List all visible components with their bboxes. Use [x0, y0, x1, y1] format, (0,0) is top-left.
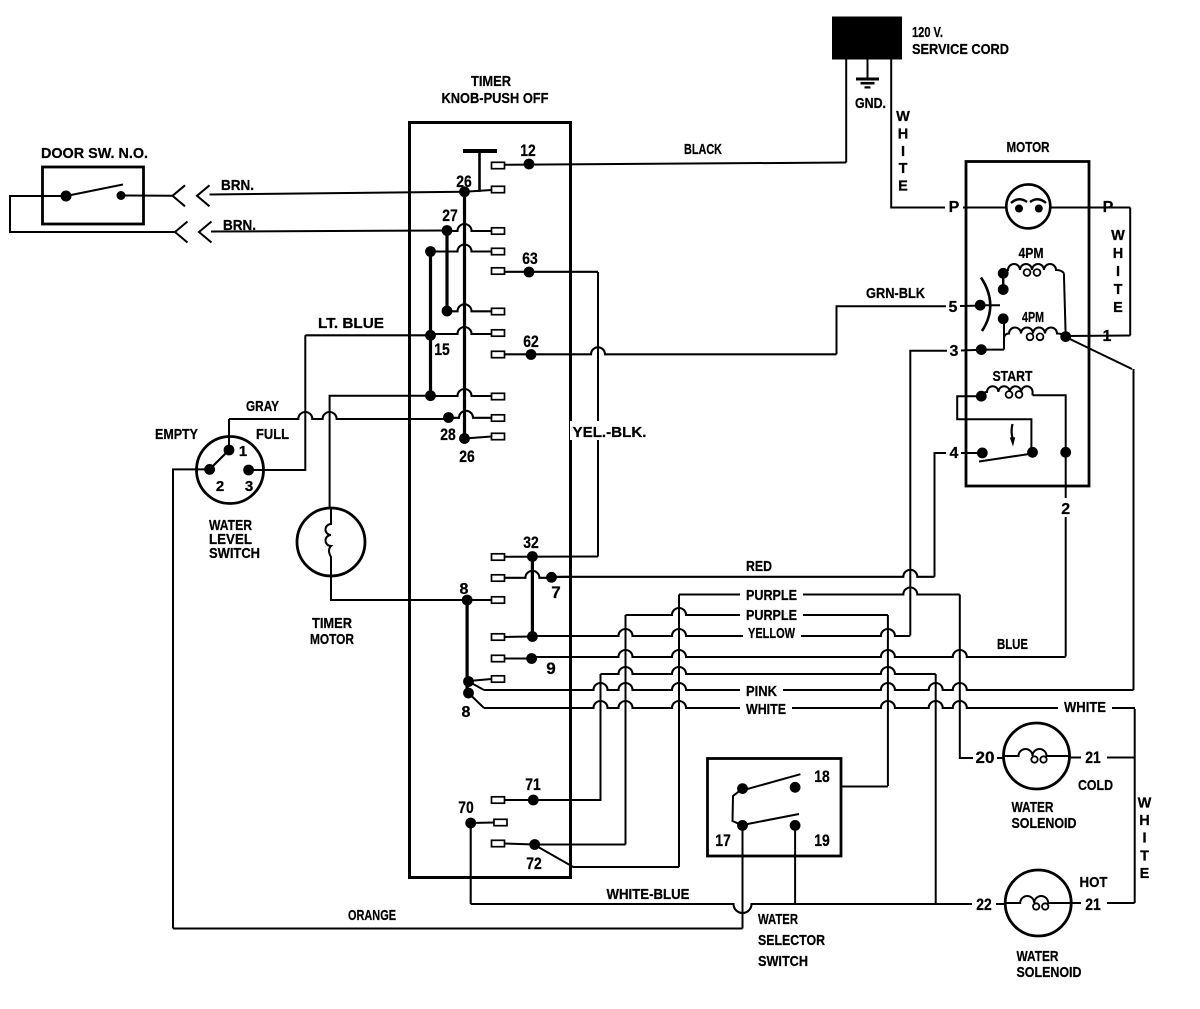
- wire PINK row: [484, 683, 1134, 690]
- label 4PM lower: [1022, 309, 1044, 326]
- svg-text:32: 32: [523, 533, 539, 552]
- timer terminal 12: [492, 162, 505, 168]
- svg-text:SOLENOID: SOLENOID: [1012, 815, 1077, 832]
- label PINK: [746, 683, 777, 700]
- svg-text:P: P: [949, 199, 960, 216]
- label 1: [1103, 328, 1112, 345]
- svg-text:3: 3: [950, 343, 959, 360]
- timer terminal 72: [492, 840, 505, 846]
- wls blade: [210, 450, 229, 469]
- timer terminal b311: [492, 308, 505, 314]
- svg-text:BLACK: BLACK: [684, 141, 722, 158]
- timer terminal c251: [492, 248, 505, 254]
- protector strip: [1011, 199, 1046, 203]
- label wls 2: [216, 478, 224, 495]
- wire ORANGE: [173, 928, 743, 930]
- label 19: [814, 831, 830, 850]
- node coil junction: [1060, 331, 1071, 342]
- timer terminal purple: [492, 634, 505, 640]
- coil2 left lead: [1003, 319, 1005, 350]
- svg-text:8: 8: [460, 581, 469, 598]
- svg-text:PURPLE: PURPLE: [746, 607, 797, 624]
- timer terminal ltblue: [492, 330, 505, 336]
- wire 311 to terminal: [447, 304, 492, 311]
- svg-text:2: 2: [1061, 501, 1070, 518]
- svg-text:FULL: FULL: [256, 426, 289, 443]
- wire timer motor riser: [330, 396, 431, 508]
- node 4b: [1027, 447, 1038, 458]
- svg-text:72: 72: [526, 854, 542, 873]
- svg-text:26: 26: [459, 447, 475, 466]
- wire 27 to terminal: [447, 224, 492, 231]
- wire hot 21: [1071, 902, 1135, 904]
- timer bus line C: [429, 252, 432, 396]
- timer bus line A: [463, 192, 466, 439]
- timer terminal 8: [492, 597, 505, 603]
- wire plug gnd pin: [867, 58, 869, 79]
- wire P right to corner: [1089, 207, 1130, 209]
- coil1 contact lower: [998, 284, 1009, 295]
- svg-text:E: E: [1140, 866, 1150, 882]
- label P right: [1100, 198, 1116, 216]
- label service cord: [912, 41, 1009, 58]
- cold water solenoid: [1004, 723, 1070, 789]
- connector chevron lower left: [175, 222, 188, 243]
- svg-text:TIMER: TIMER: [312, 615, 352, 632]
- wire PURPLE row2: [626, 608, 888, 615]
- wls contact 2: [204, 464, 215, 475]
- label HOT: [1080, 874, 1108, 891]
- svg-text:START: START: [993, 368, 1033, 385]
- wire 26a to terminal: [465, 190, 492, 192]
- wire 63 horizontal: [505, 271, 599, 273]
- wire BRN lower to timer 27: [211, 231, 447, 232]
- label WHITE row: [746, 701, 786, 718]
- wire 2 vertical: [1065, 452, 1067, 656]
- timer motor coil: [326, 508, 332, 576]
- wire 8b terminal: [469, 679, 492, 681]
- svg-text:EMPTY: EMPTY: [155, 426, 198, 443]
- svg-text:63: 63: [522, 249, 538, 268]
- label 22: [976, 895, 992, 914]
- node 26 top: [459, 186, 470, 197]
- wire 70 drop: [470, 823, 472, 904]
- sel blade 1: [744, 774, 801, 790]
- svg-text:KNOB-PUSH OFF: KNOB-PUSH OFF: [442, 90, 549, 107]
- svg-text:21: 21: [1085, 895, 1101, 914]
- coil2 contact: [998, 313, 1009, 324]
- wire purple2 left riser: [625, 615, 627, 845]
- label WATER LEVEL SWITCH: [209, 517, 260, 562]
- svg-text:WHITE-BLUE: WHITE-BLUE: [607, 886, 690, 903]
- wire WHITE row: [484, 701, 1135, 708]
- node 7: [546, 572, 557, 583]
- door switch label: [41, 145, 148, 162]
- label 21 cold: [1085, 748, 1101, 767]
- label 8 upper: [460, 581, 469, 598]
- node 8 low: [463, 688, 474, 699]
- svg-text:HOT: HOT: [1080, 874, 1108, 891]
- label BLACK: [684, 141, 722, 158]
- label 8 lower: [462, 704, 471, 721]
- svg-text:H: H: [898, 126, 908, 142]
- timer terminal 62: [492, 351, 505, 357]
- node 5: [975, 300, 986, 311]
- water selector switch box: [708, 759, 842, 857]
- svg-text:SWITCH: SWITCH: [209, 545, 260, 562]
- centrifugal arrow: [1010, 424, 1015, 447]
- svg-text:W: W: [1138, 796, 1152, 812]
- label GRAY: [246, 398, 279, 415]
- wire purple terminal: [505, 636, 533, 639]
- coil1 contact upper: [998, 268, 1009, 279]
- wire purple2 right drop: [887, 615, 889, 786]
- timer switch bar: [463, 149, 497, 153]
- timer bus line 32: [531, 557, 534, 637]
- svg-text:3: 3: [245, 478, 253, 495]
- svg-text:I: I: [901, 144, 905, 160]
- label 28: [440, 425, 456, 444]
- wire purple1 drop: [960, 595, 1004, 759]
- timer terminal 8b: [492, 676, 505, 682]
- label WATER SELECTOR SWITCH: [758, 911, 825, 970]
- timer terminal 9: [492, 655, 505, 661]
- wire 71 row: [601, 667, 936, 674]
- svg-text:W: W: [896, 109, 910, 125]
- sel contact 17: [737, 820, 748, 831]
- node 70: [465, 818, 476, 829]
- wire YELLOW-BLACK vertical: [597, 272, 599, 557]
- svg-text:T: T: [1114, 282, 1123, 298]
- svg-text:4PM: 4PM: [1019, 245, 1044, 262]
- timer switch stem: [478, 152, 481, 192]
- svg-text:E: E: [1113, 300, 1123, 316]
- label ORANGE: [348, 907, 396, 924]
- svg-text:H: H: [1113, 246, 1123, 262]
- wire 26b to terminal: [465, 437, 492, 439]
- svg-text:62: 62: [523, 332, 539, 351]
- wire 7 terminal: [505, 571, 552, 578]
- wire 71 terminal: [505, 799, 534, 801]
- node 8 mid: [463, 676, 474, 687]
- wire 62 GRN-BLK: [505, 347, 837, 354]
- svg-text:4: 4: [950, 445, 959, 462]
- svg-text:H: H: [1139, 813, 1149, 829]
- coil1 contact stub: [1002, 273, 1004, 289]
- node B bottom: [442, 306, 453, 317]
- wire GRAY run: [229, 412, 449, 450]
- svg-text:21: 21: [1085, 748, 1101, 767]
- svg-text:26: 26: [456, 172, 472, 191]
- start coil contact: [976, 391, 987, 402]
- wire door switch to connector: [121, 195, 173, 197]
- wire WHITE-BLUE 22 run: [471, 904, 1006, 913]
- svg-text:PINK: PINK: [746, 683, 777, 700]
- connector chevron upper right: [197, 185, 210, 206]
- svg-text:WATER: WATER: [758, 911, 798, 928]
- label 70: [458, 798, 474, 817]
- wire LT BLUE horizontal: [305, 327, 491, 335]
- wire pink riser: [1133, 369, 1135, 690]
- wire 3 into box: [961, 349, 981, 352]
- node 63: [524, 267, 535, 278]
- label 71: [525, 775, 541, 794]
- svg-text:YEL.-BLK.: YEL.-BLK.: [573, 424, 647, 441]
- wire timer motor to 8: [331, 576, 467, 600]
- wire 3 stub: [981, 349, 1004, 351]
- label 18: [814, 767, 830, 786]
- wls contact 3: [243, 465, 254, 476]
- label RED: [746, 558, 772, 575]
- start switch bracket: [957, 396, 1031, 451]
- label 4PM upper: [1019, 245, 1044, 262]
- wire white diag: [469, 693, 485, 708]
- label 21 hot: [1085, 895, 1101, 914]
- node 28: [443, 412, 454, 423]
- wire 72 terminal: [505, 844, 535, 845]
- label 17: [715, 831, 731, 850]
- timer terminal 32: [492, 554, 505, 560]
- wls contact 1: [224, 445, 235, 456]
- label 3: [947, 341, 961, 360]
- start blade: [979, 454, 1033, 462]
- node 72: [529, 839, 540, 850]
- label 12: [520, 141, 536, 160]
- svg-text:WATER: WATER: [1012, 799, 1054, 816]
- door switch DS1 box: [43, 167, 144, 224]
- label BRN upper: [221, 177, 254, 194]
- wire protector left: [966, 207, 1006, 209]
- node 9: [526, 653, 537, 664]
- svg-text:27: 27: [442, 206, 458, 225]
- timer label: [471, 73, 511, 90]
- label YEL-BLK: [570, 421, 649, 441]
- svg-text:28: 28: [440, 425, 456, 444]
- label GND: [855, 95, 886, 112]
- hot water solenoid: [1005, 870, 1071, 936]
- wire 5 into box: [960, 305, 980, 307]
- svg-text:22: 22: [976, 895, 992, 914]
- label TIMER MOTOR: [310, 615, 354, 648]
- label P left: [946, 198, 961, 216]
- label 26 top: [456, 172, 472, 191]
- wire 28 to terminal: [449, 411, 492, 418]
- ground symbol: [856, 79, 879, 87]
- wire BLACK horizontal: [0, 0, 1, 1]
- motor box: [966, 162, 1089, 487]
- label BRN lower: [223, 217, 256, 234]
- node C mid: [425, 330, 436, 341]
- timer terminal 27: [492, 228, 505, 234]
- node 71: [528, 795, 539, 806]
- timer box: [410, 123, 571, 878]
- wire 396 into timer: [431, 389, 492, 396]
- label 9: [546, 659, 555, 678]
- svg-text:SELECTOR: SELECTOR: [758, 932, 825, 949]
- svg-text:19: 19: [814, 831, 830, 850]
- svg-text:MOTOR: MOTOR: [310, 631, 354, 648]
- node 4a: [977, 448, 988, 459]
- wire 72 to purple2: [535, 844, 626, 846]
- svg-text:SOLENOID: SOLENOID: [1017, 964, 1082, 981]
- label WHITE-BLUE: [607, 886, 690, 903]
- wire cold 21: [1070, 756, 1135, 758]
- node C top: [425, 246, 436, 257]
- motor start coil: [981, 386, 1032, 398]
- timer bus line 8: [466, 600, 469, 693]
- svg-text:20: 20: [976, 748, 995, 767]
- label 32: [523, 533, 539, 552]
- timer motor circle: [297, 508, 365, 576]
- label COLD: [1078, 777, 1113, 794]
- door switch left contact: [61, 191, 72, 202]
- svg-text:7: 7: [551, 583, 560, 602]
- wire PURPLE row1: [679, 588, 960, 595]
- label PURPLE 1: [746, 587, 797, 604]
- sel contact 18: [790, 782, 801, 793]
- wire BRN upper to timer 26: [210, 192, 465, 195]
- label 7: [551, 583, 560, 602]
- wire 18 out: [841, 786, 888, 788]
- door switch blade: [66, 185, 123, 197]
- svg-text:1: 1: [1103, 328, 1112, 345]
- sel contact 17top: [737, 783, 748, 794]
- label 63: [522, 249, 538, 268]
- label 4: [947, 443, 961, 462]
- motor run coil 1: [1003, 264, 1064, 276]
- node purple: [527, 631, 538, 642]
- wire 3 yellow riser: [910, 351, 947, 636]
- timer terminal 71: [492, 797, 505, 803]
- wire 4 into box: [961, 452, 982, 454]
- timer terminal 70: [494, 819, 507, 825]
- timer terminal 7: [492, 575, 505, 581]
- svg-text:GND.: GND.: [855, 95, 886, 112]
- svg-text:9: 9: [546, 659, 555, 678]
- label LT BLUE: [318, 315, 384, 332]
- sel bracket: [733, 789, 743, 826]
- label 120V: [912, 24, 943, 41]
- speed blade arc: [981, 278, 990, 332]
- svg-text:T: T: [899, 161, 908, 177]
- wire YELLOW row: [532, 629, 910, 636]
- label 72: [526, 854, 542, 873]
- svg-text:E: E: [898, 179, 908, 195]
- svg-text:WHITE: WHITE: [1064, 699, 1106, 716]
- blade 5 stub: [980, 304, 1000, 306]
- svg-text:GRAY: GRAY: [246, 398, 279, 415]
- svg-text:8: 8: [462, 704, 471, 721]
- timer label 2: [442, 90, 549, 107]
- svg-text:MOTOR: MOTOR: [1007, 139, 1050, 156]
- label YELLOW: [748, 625, 796, 642]
- svg-text:4PM: 4PM: [1022, 309, 1044, 326]
- label 20: [973, 747, 997, 767]
- svg-text:1: 1: [239, 443, 247, 460]
- diagonal motor to pink riser: [1066, 337, 1132, 369]
- wire white vertical right of motor: [1129, 208, 1131, 336]
- label WHITE vertical motor: [1111, 228, 1125, 316]
- label 26 bottom: [459, 447, 475, 466]
- wire protector right: [1050, 207, 1089, 209]
- label 27: [442, 206, 458, 225]
- label wls 3: [245, 478, 253, 495]
- timer terminal 26a: [492, 186, 505, 192]
- svg-text:T: T: [1140, 848, 1149, 864]
- wire GRN-BLK riser: [837, 306, 947, 354]
- wire 251 to terminal: [431, 245, 492, 252]
- timer terminal 26b: [492, 433, 505, 439]
- label WATER SOLENOID cold: [1012, 799, 1077, 832]
- label PURPLE 2: [746, 607, 797, 624]
- label FULL: [256, 426, 289, 443]
- label WATER SOLENOID hot: [1017, 948, 1082, 981]
- wire 9 terminal: [505, 658, 532, 660]
- wire 17 drop: [742, 826, 744, 929]
- coil1 right lead: [1064, 273, 1066, 336]
- wire terminal to BLACK: [505, 163, 847, 165]
- label wls 1: [239, 443, 247, 460]
- svg-text:LT. BLUE: LT. BLUE: [318, 315, 384, 332]
- label BLUE: [997, 636, 1028, 653]
- wire wls2 orange left: [173, 469, 210, 928]
- svg-text:SERVICE CORD: SERVICE CORD: [912, 41, 1009, 58]
- svg-text:BRN.: BRN.: [221, 177, 254, 194]
- wire 1: [1066, 335, 1131, 338]
- svg-text:DOOR SW. N.O.: DOOR SW. N.O.: [41, 145, 148, 162]
- protector contact right: [1035, 205, 1043, 213]
- svg-text:70: 70: [458, 798, 474, 817]
- node 8 upper: [462, 595, 473, 606]
- wire 72 diag: [535, 845, 679, 867]
- wire 19 drop: [794, 827, 796, 904]
- wire purple1 riser: [678, 595, 680, 868]
- wire BLUE row: [532, 650, 1066, 657]
- label WHITE right: [1064, 699, 1106, 716]
- motor protector circle: [1006, 184, 1050, 228]
- svg-text:COLD: COLD: [1078, 777, 1113, 794]
- svg-text:5: 5: [949, 299, 958, 316]
- wire pink diag: [469, 682, 485, 691]
- wire RED: [552, 570, 935, 578]
- node 3: [976, 344, 987, 355]
- wire RED riser: [935, 453, 947, 577]
- node 26 bottom: [459, 433, 470, 444]
- timer terminal gray: [492, 415, 505, 421]
- svg-text:GRN-BLK: GRN-BLK: [866, 285, 925, 302]
- node 12: [524, 159, 535, 170]
- wire 71 riser: [533, 674, 600, 800]
- node 32: [527, 551, 538, 562]
- label 15: [434, 340, 450, 359]
- svg-text:12: 12: [520, 141, 536, 160]
- svg-text:WATER: WATER: [1017, 948, 1059, 965]
- node 62: [526, 349, 537, 360]
- timer terminal 63: [492, 268, 505, 274]
- svg-text:YELLOW: YELLOW: [748, 625, 796, 642]
- connector chevron lower right: [199, 222, 212, 243]
- wire wls3 ltblue: [249, 335, 306, 470]
- node 4c: [1060, 447, 1071, 458]
- timer terminal v396: [492, 393, 505, 399]
- svg-text:17: 17: [715, 831, 731, 850]
- door switch right contact: [117, 191, 126, 200]
- label GRN-BLK: [866, 285, 925, 302]
- label 2: [1058, 498, 1073, 518]
- svg-text:W: W: [1111, 228, 1125, 244]
- label WHITE vertical solenoid: [1138, 796, 1152, 882]
- svg-text:15: 15: [434, 340, 450, 359]
